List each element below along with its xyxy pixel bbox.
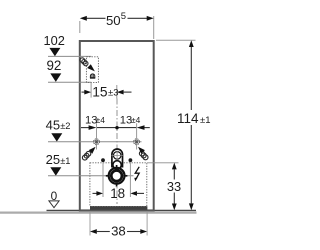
svg-text:38: 38 bbox=[111, 223, 126, 238]
dim 18: dimension line and arrows bbox=[93, 191, 145, 196]
dim 13±4 left and right: dimension line bbox=[81, 125, 150, 130]
dim 38: dimension line and arrows bbox=[90, 229, 147, 234]
dim 114±1: dimension line and arrows bbox=[189, 40, 194, 210]
centerline bbox=[116, 99, 118, 205]
dim 114±1: label bbox=[177, 111, 211, 126]
flush pipe lower circle bbox=[113, 161, 121, 169]
dim 18: label bbox=[110, 186, 125, 201]
dim 13±4 right: label bbox=[120, 114, 141, 126]
connection dot right bbox=[129, 158, 133, 197]
left lateral supply arrow bbox=[89, 147, 96, 154]
svg-text:50: 50 bbox=[106, 13, 121, 28]
svg-text:±3: ±3 bbox=[108, 87, 119, 98]
fixing point right bbox=[134, 139, 140, 145]
svg-text:±4: ±4 bbox=[96, 115, 106, 125]
svg-text:25: 25 bbox=[46, 152, 60, 167]
svg-text:45: 45 bbox=[46, 118, 60, 133]
left lateral supply coil icon bbox=[82, 151, 90, 160]
dim 33: label bbox=[167, 179, 181, 194]
svg-text:±2: ±2 bbox=[60, 121, 70, 131]
svg-text:5: 5 bbox=[121, 11, 126, 22]
main module outline bbox=[80, 41, 154, 210]
dotted level line extension to 33 dim bbox=[147, 162, 179, 164]
dim 15±3: extension lines bbox=[91, 83, 117, 99]
flush pipe capsule bbox=[112, 149, 123, 167]
floor hatch band bbox=[0, 212, 197, 214]
svg-text:±1: ±1 bbox=[60, 156, 70, 166]
dim 33: dimension line and arrows bbox=[172, 163, 177, 211]
water supply hose coil icon bbox=[80, 58, 88, 66]
dim 15±3: dimension line and arrows bbox=[82, 90, 132, 95]
connection dot left bbox=[101, 158, 105, 197]
fixing point left bbox=[94, 139, 100, 145]
bottom dashed envelope box bbox=[90, 163, 147, 207]
svg-text:15: 15 bbox=[92, 84, 108, 99]
svg-text:±4: ±4 bbox=[131, 115, 141, 125]
dim 38: extension lines below floor bbox=[90, 211, 147, 235]
svg-text:±1: ±1 bbox=[200, 115, 211, 126]
drain outer ring bbox=[109, 168, 125, 184]
dim 13±4 left: label bbox=[85, 114, 105, 126]
base plate bar bbox=[90, 206, 147, 210]
svg-text:102: 102 bbox=[44, 33, 65, 48]
svg-text:18: 18 bbox=[110, 186, 125, 201]
right lateral supply coil icon bbox=[139, 151, 148, 160]
level marker 102 bbox=[44, 33, 92, 56]
right lateral supply arrow bbox=[138, 147, 145, 154]
water supply tap glyph bbox=[90, 74, 95, 78]
dim 50.5 top: extension lines bbox=[80, 16, 154, 39]
dim 13±4: extension lines through fixing points bbox=[97, 123, 137, 149]
dim 38: label bbox=[111, 223, 126, 238]
flush pipe upper circle bbox=[112, 151, 123, 161]
floor line bbox=[47, 209, 197, 211]
dim 50.5 top: label bbox=[106, 11, 126, 28]
water supply dashed box bbox=[86, 57, 98, 83]
level marker 25±1 bbox=[46, 152, 134, 176]
svg-text:114: 114 bbox=[177, 111, 199, 126]
datum marker 0 bbox=[49, 189, 59, 208]
dim 13±4: center dot bbox=[115, 126, 118, 129]
drain ring tick marks bbox=[106, 165, 128, 187]
electrical lightning bolt bbox=[134, 167, 139, 182]
level marker 92 bbox=[46, 58, 91, 82]
svg-text:92: 92 bbox=[46, 58, 61, 73]
dim 15±3: label bbox=[92, 84, 118, 99]
svg-text:33: 33 bbox=[167, 179, 181, 194]
level marker 45±2 bbox=[46, 118, 142, 142]
water supply arrow bbox=[87, 64, 95, 71]
dim 50.5 top: dimension line and arrows bbox=[80, 16, 154, 21]
dim 114±1: top extension line bbox=[156, 39, 196, 41]
